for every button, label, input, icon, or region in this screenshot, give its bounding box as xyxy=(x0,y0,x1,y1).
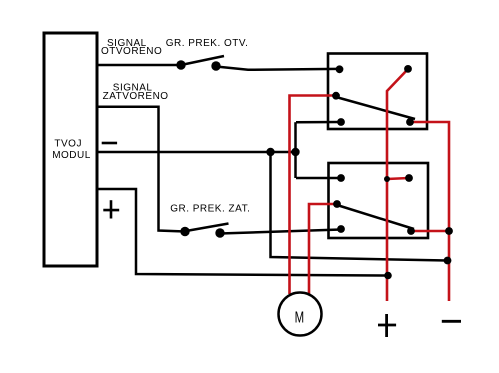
svg-text:GR. PREK. OTV.: GR. PREK. OTV. xyxy=(166,38,249,49)
svg-text:TVOJ: TVOJ xyxy=(54,139,82,150)
svg-text:MODUL: MODUL xyxy=(52,150,91,161)
svg-text:ZATVORENO: ZATVORENO xyxy=(103,91,169,102)
svg-text:M: M xyxy=(295,309,305,326)
svg-text:GR. PREK. ZAT.: GR. PREK. ZAT. xyxy=(170,203,250,214)
svg-text:OTVORENO: OTVORENO xyxy=(101,46,162,57)
